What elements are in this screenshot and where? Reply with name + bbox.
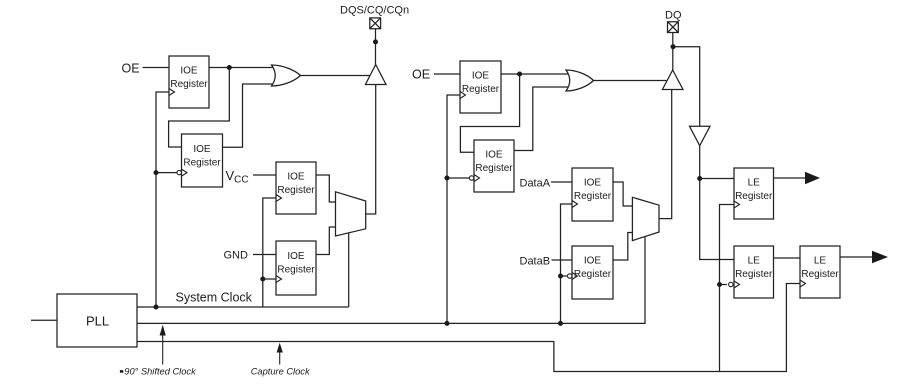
svg-text:OE: OE <box>122 62 140 76</box>
svg-text:IOE: IOE <box>287 251 305 262</box>
svg-text:Register: Register <box>475 163 513 174</box>
svg-text:IOE: IOE <box>287 172 305 183</box>
svg-text:Register: Register <box>277 185 315 196</box>
svg-text:Register: Register <box>801 269 839 280</box>
svg-text:Register: Register <box>170 79 208 90</box>
svg-text:IOE: IOE <box>180 66 198 77</box>
svg-text:Register: Register <box>277 265 315 276</box>
svg-text:Register: Register <box>574 269 612 280</box>
svg-text:IOE: IOE <box>472 71 490 82</box>
svg-text:DataB: DataB <box>520 256 551 268</box>
svg-text:System Clock: System Clock <box>176 291 253 305</box>
svg-text:DQS/CQ/CQn: DQS/CQ/CQn <box>340 4 409 16</box>
svg-text:LE: LE <box>748 256 761 267</box>
svg-text:DataA: DataA <box>520 178 551 190</box>
svg-text:IOE: IOE <box>485 150 503 161</box>
svg-text:IOE: IOE <box>584 178 602 189</box>
svg-text:Capture Clock: Capture Clock <box>251 366 311 376</box>
svg-text:Register: Register <box>574 191 612 202</box>
svg-text:PLL: PLL <box>86 314 109 329</box>
svg-text:OE: OE <box>412 68 430 82</box>
svg-text:90° Shifted Clock: 90° Shifted Clock <box>124 366 197 376</box>
svg-text:DQ: DQ <box>665 10 682 22</box>
svg-text:GND: GND <box>224 250 249 262</box>
svg-text:Register: Register <box>183 158 221 169</box>
svg-text:IOE: IOE <box>584 256 602 267</box>
svg-text:Register: Register <box>462 84 500 95</box>
svg-text:Register: Register <box>735 191 773 202</box>
svg-text:LE: LE <box>748 178 761 189</box>
svg-text:LE: LE <box>814 256 827 267</box>
svg-text:IOE: IOE <box>193 144 211 155</box>
svg-text:Register: Register <box>735 269 773 280</box>
